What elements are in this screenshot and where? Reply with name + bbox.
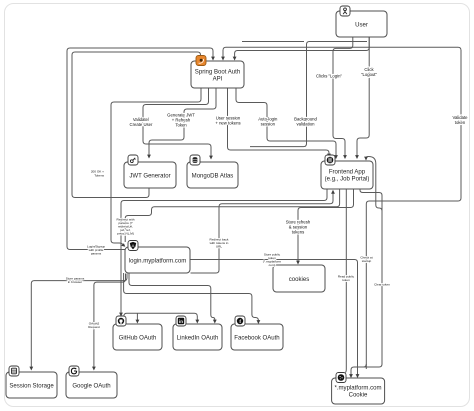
svg-text:Google OAuth: Google OAuth: [72, 383, 110, 389]
svg-text:Cookie: Cookie: [349, 392, 368, 398]
icon JWT key: [128, 155, 138, 165]
svg-text:token: token: [455, 120, 466, 125]
wire Spring to MongoDB (Validate/Create User): [143, 89, 211, 157]
wire JWT Generator to Spring icon (left tall loop): [72, 52, 201, 198]
svg-text:session: session: [261, 121, 276, 126]
wire Spring to Frontend icon (User session + new tokens): [228, 89, 330, 156]
wire Spring to login (200 OK + Tokens / Redirect with params): [111, 89, 201, 246]
box MongoDB Atlas: [187, 162, 238, 188]
wire Frontend to GitHub OAuth (long left vertical): [121, 190, 327, 314]
svg-text:Clicks "Login": Clicks "Login": [316, 74, 342, 79]
svg-text:Facebook OAuth: Facebook OAuth: [234, 335, 279, 341]
wire Frontend top-right arrow via right vertical to Clear token / cookie: [351, 157, 382, 376]
svg-text:in browser: in browser: [68, 280, 82, 284]
icon User (person): [340, 6, 350, 16]
svg-text:cookies: cookies: [289, 277, 310, 283]
wire login.myplatform.com to Spring Boot (Login/Signup with profile params): [67, 48, 213, 250]
wire login to myplatform cookie (Store public token): [191, 260, 358, 376]
box Facebook OAuth: [231, 324, 283, 350]
wire Frontend to login top area: [125, 190, 339, 243]
svg-text:Request: Request: [88, 325, 100, 329]
box LinkedIn OAuth: [173, 324, 222, 350]
icon cookie dark: [336, 373, 346, 383]
wire User to Spring (second top arrow): [235, 38, 370, 58]
svg-text:Spring Boot Auth: Spring Boot Auth: [195, 69, 240, 75]
wire login to LinkedIn OAuth: [129, 274, 215, 321]
wire Frontend to cookies (Store refresh & session tokens): [298, 190, 354, 262]
svg-text:Session Storage: Session Storage: [9, 383, 54, 389]
icon LinkedIn: [176, 316, 186, 326]
svg-text:User: User: [355, 22, 368, 28]
wire Frontend bottom jog to clear-token vertical: [360, 190, 382, 212]
svg-text:GitHub OAuth: GitHub OAuth: [119, 335, 157, 341]
svg-text:Create User: Create User: [130, 122, 153, 127]
box GitHub OAuth: [113, 324, 162, 350]
icon Spring Boot (orange): [196, 56, 206, 66]
wire Frontend to cookie icon (Read public token): [345, 190, 346, 373]
svg-text:Token: Token: [175, 123, 187, 128]
wire branch arrow into GitHub box: [136, 313, 138, 320]
box JWT Generator: [124, 162, 176, 188]
icon Facebook: [235, 316, 245, 326]
icon Session Storage database: [9, 366, 19, 376]
wire login to Session Storage (Store params in browser): [31, 274, 127, 368]
wire Background validation: [250, 42, 367, 147]
box myplatform cookie: [332, 378, 385, 404]
box Session Storage: [6, 372, 57, 398]
icon Auth0 shield dark: [128, 241, 138, 251]
svg-text:Frontend App: Frontend App: [329, 169, 366, 175]
wire login to Facebook OAuth: [124, 273, 259, 321]
wire Spring to JWT Generator (Generate JWT + Refresh Token): [149, 89, 216, 156]
icon GitHub: [116, 316, 126, 326]
svg-text:MongoDB Atlas: MongoDB Atlas: [192, 173, 234, 179]
icon Google G: [69, 366, 79, 376]
svg-text:Clear token: Clear token: [374, 283, 390, 287]
svg-text:token: token: [342, 278, 350, 282]
wire User to Frontend (Clicks Login): [333, 38, 353, 157]
icon Frontend React dark: [325, 155, 335, 165]
svg-text:LinkedIn OAuth: LinkedIn OAuth: [177, 335, 219, 341]
wire GitHub icon hook to LinkedIn: [124, 313, 197, 320]
svg-text:*.myplatform.com: *.myplatform.com: [334, 385, 381, 391]
svg-text:params: params: [91, 252, 102, 256]
svg-text:priva_N|_M): priva_N|_M): [117, 232, 134, 236]
wire User to Frontend (Click Logout): [357, 38, 369, 157]
svg-text:in: in: [179, 319, 183, 324]
svg-text:login.myplatform.com: login.myplatform.com: [129, 258, 186, 264]
svg-text:startup: startup: [362, 259, 372, 263]
wire big loop cookie-frontend-Spring (Validate token / Check at startup): [223, 47, 461, 369]
box Frontend App: [321, 161, 373, 189]
svg-text:tokens: tokens: [292, 230, 305, 235]
wire segment top horizontal left of background validation: [242, 41, 304, 43]
svg-text:JWT Generator: JWT Generator: [129, 173, 170, 179]
svg-text:validation: validation: [297, 121, 316, 126]
box Google OAuth: [66, 372, 117, 398]
box cookies: [273, 265, 325, 292]
box User: [336, 11, 387, 37]
svg-text:+ new tokens: + new tokens: [215, 121, 240, 126]
svg-text:URL: URL: [216, 245, 222, 249]
wire login to Frontend (Redirect back with tokens in URL): [191, 193, 334, 274]
svg-text:API: API: [213, 76, 223, 82]
icon MongoDB leaf: [190, 155, 200, 165]
svg-text:Tokens: Tokens: [94, 174, 104, 178]
arrow into GitHub icon: [119, 313, 123, 317]
wire login to Google OAuth (OAuth2 Request): [94, 274, 126, 368]
svg-text:com): com): [269, 263, 276, 267]
box login.myplatform.com: [125, 247, 190, 273]
svg-text:"Logout": "Logout": [361, 72, 378, 77]
svg-text:(e.g., Job Portal): (e.g., Job Portal): [325, 176, 370, 182]
box Spring Boot Auth API: [191, 61, 244, 88]
wire Spring to Frontend (Auto-login session): [236, 89, 336, 157]
